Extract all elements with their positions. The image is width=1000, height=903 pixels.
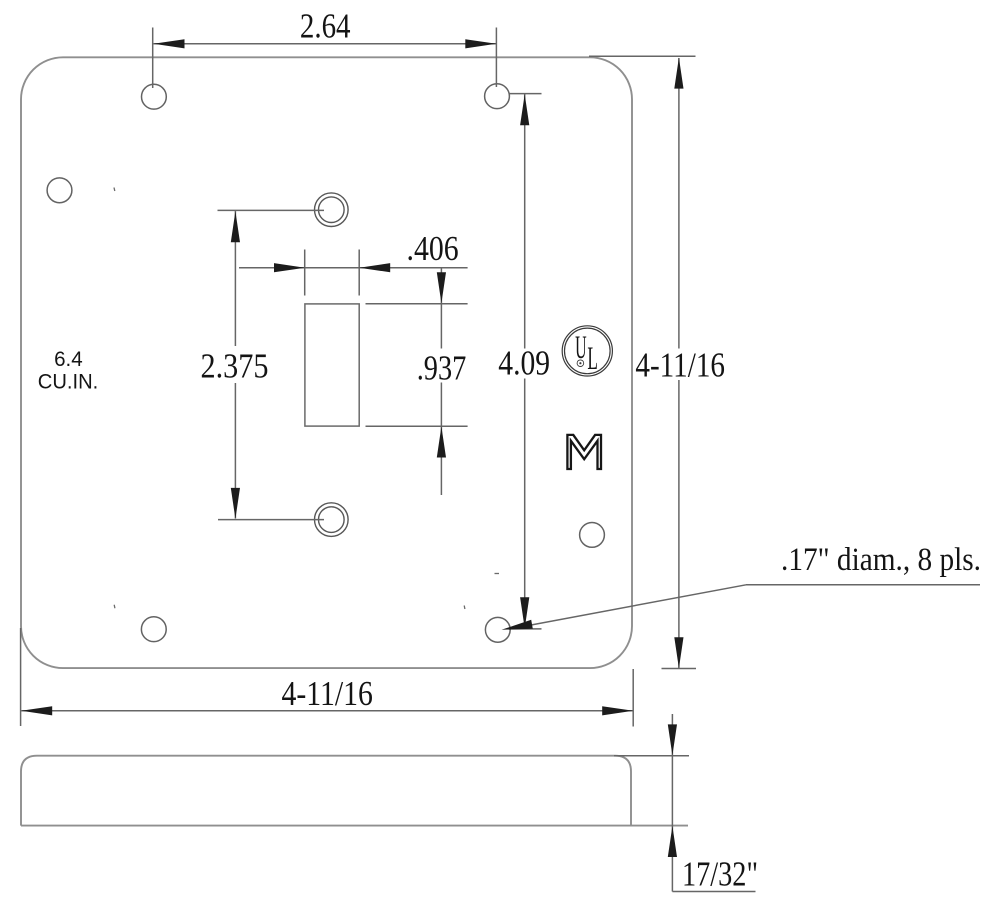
text 6.4 CU.IN. <box>38 348 99 394</box>
dimension .937 line <box>440 268 442 495</box>
dimension 4.09 ticks <box>510 94 542 629</box>
dimension bottom 4-11/16 arrow left <box>21 706 52 715</box>
dimension .937 arrow pointing down <box>437 272 446 303</box>
side view bottom edge with extension <box>21 825 688 827</box>
dimension 17/32 arrow pointing down <box>668 724 677 755</box>
leader arrowhead <box>502 620 533 630</box>
dimension 2.64 arrow left <box>154 39 185 48</box>
switch slot <box>305 304 359 426</box>
svg-text:2.375: 2.375 <box>201 347 269 386</box>
dimension right 4-11/16 arrow top <box>674 58 683 89</box>
dimension .937 arrow pointing up <box>437 427 446 458</box>
dimension .406 line <box>239 267 468 269</box>
dimension .406 arrow pointing right <box>274 263 305 272</box>
dimension 2.64 line <box>154 43 497 45</box>
dimension right 4-11/16 extension lines <box>589 56 696 668</box>
hole bottom-right <box>485 617 510 642</box>
svg-text:4-11/16: 4-11/16 <box>635 346 725 385</box>
svg-text:.17" diam., 8 pls.: .17" diam., 8 pls. <box>781 541 981 578</box>
svg-text:4-11/16: 4-11/16 <box>281 674 373 713</box>
dimension 2.64 extension lines <box>153 28 497 89</box>
dimension 2.375 arrow bottom <box>231 488 240 519</box>
plate outline (front view) <box>21 57 632 668</box>
hole top-right <box>485 84 510 109</box>
countersunk hole upper (double circle) <box>315 193 349 227</box>
svg-text:.937: .937 <box>417 349 467 388</box>
dimension 4.09 arrow bottom <box>520 597 529 628</box>
dimension .406 arrow pointing left <box>359 263 390 272</box>
hole top-left <box>142 84 167 109</box>
M logo (manufacturer mark) <box>567 435 601 469</box>
dimension bottom 4-11/16 line <box>21 710 633 712</box>
UL logo <box>562 326 612 377</box>
svg-text:.406: .406 <box>407 229 459 268</box>
dimension 17/32 arrow pointing up <box>668 826 677 857</box>
dimension 2.375 line <box>234 211 236 519</box>
leader line .17 diam <box>509 585 980 629</box>
svg-text:4.09: 4.09 <box>498 344 550 383</box>
countersunk hole lower (double circle) <box>315 503 349 537</box>
dimension 2.64 arrow right <box>465 39 496 48</box>
dimension 4.09 line <box>524 94 526 628</box>
dimension .937 extension lines <box>366 304 468 426</box>
dimension 2.375 arrow top <box>231 211 240 242</box>
hole bottom-left <box>141 617 166 642</box>
svg-text:U: U <box>575 330 587 366</box>
svg-text:6.4: 6.4 <box>54 348 83 371</box>
svg-text:CU.IN.: CU.IN. <box>38 370 99 393</box>
svg-text:2.64: 2.64 <box>300 7 351 46</box>
svg-text:L: L <box>587 341 598 377</box>
dimension bottom 4-11/16 extension lines <box>21 628 634 727</box>
dimension bottom 4-11/16 arrow right <box>602 706 633 715</box>
speck marks <box>114 188 499 610</box>
hole left <box>47 178 72 203</box>
dimension 17/32 line <box>672 714 755 892</box>
svg-text:17/32": 17/32" <box>682 854 758 893</box>
dimension right 4-11/16 arrow bottom <box>674 637 683 668</box>
side view outline <box>21 756 631 826</box>
dimension right 4-11/16 line <box>678 58 680 668</box>
dimension .406 extension lines <box>305 250 360 296</box>
side view top extension line <box>614 755 689 757</box>
dimension 2.375 extension lines <box>218 210 325 519</box>
hole right-side <box>580 523 605 548</box>
dimension 4.09 arrow top <box>520 94 529 125</box>
